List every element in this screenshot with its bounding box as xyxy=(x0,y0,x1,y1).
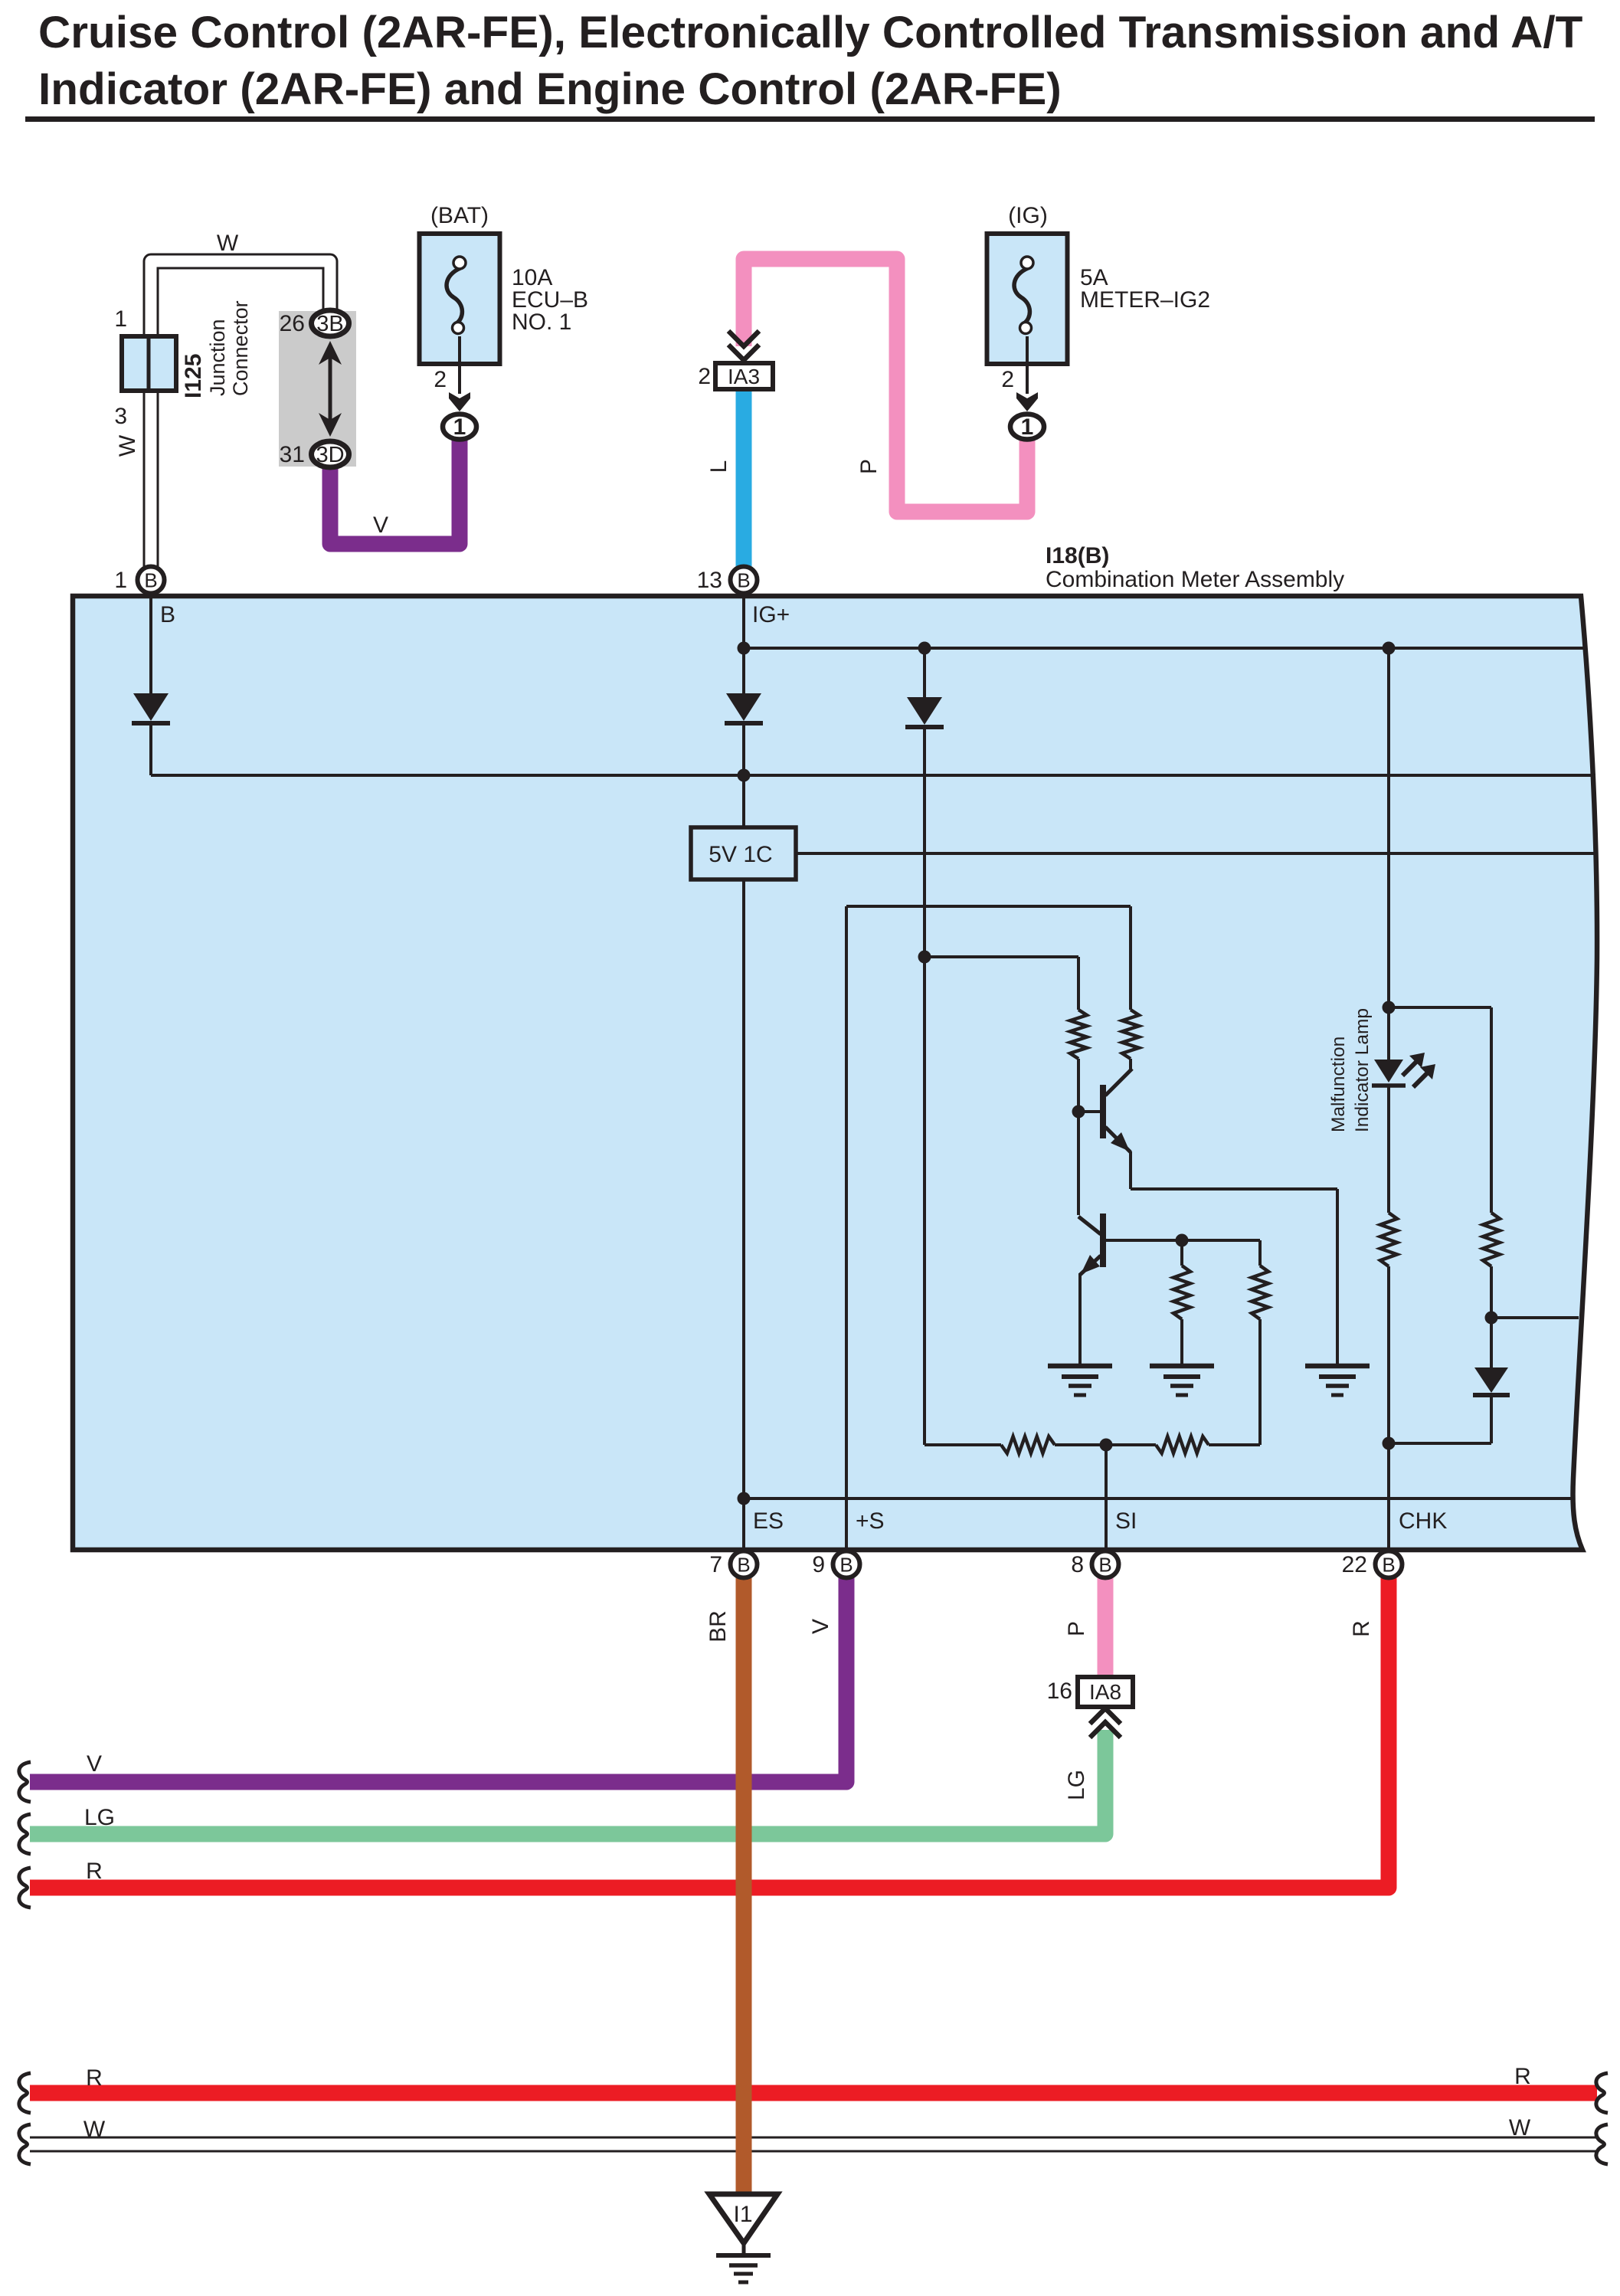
svg-text:IA3: IA3 xyxy=(728,365,760,388)
svg-text:Cruise Control (2AR-FE), Elect: Cruise Control (2AR-FE), Electronically … xyxy=(38,8,1583,57)
svg-text:(BAT): (BAT) xyxy=(430,203,489,228)
svg-text:METER–IG2: METER–IG2 xyxy=(1080,287,1210,313)
svg-text:V: V xyxy=(87,1751,102,1777)
svg-text:P: P xyxy=(1064,1621,1089,1636)
svg-text:W: W xyxy=(83,2117,106,2142)
svg-text:V: V xyxy=(808,1619,833,1634)
svg-text:B: B xyxy=(1098,1554,1111,1577)
svg-text:I125: I125 xyxy=(181,354,206,398)
svg-text:7: 7 xyxy=(709,1552,722,1577)
svg-text:R: R xyxy=(1349,1620,1374,1637)
svg-text:Junction: Junction xyxy=(206,319,229,396)
svg-text:ES: ES xyxy=(753,1508,784,1534)
svg-text:2: 2 xyxy=(434,367,447,392)
svg-text:LG: LG xyxy=(84,1805,115,1830)
svg-text:+S: +S xyxy=(856,1508,885,1534)
svg-text:W: W xyxy=(1509,2115,1531,2140)
svg-text:Connector: Connector xyxy=(229,300,252,396)
svg-text:LG: LG xyxy=(1064,1770,1089,1800)
svg-text:R: R xyxy=(1514,2064,1531,2089)
svg-text:1: 1 xyxy=(453,414,466,440)
svg-text:CHK: CHK xyxy=(1399,1508,1447,1534)
svg-text:W: W xyxy=(217,231,239,256)
svg-text:(IG): (IG) xyxy=(1008,203,1048,228)
svg-text:1: 1 xyxy=(114,306,127,332)
svg-text:Combination Meter Assembly: Combination Meter Assembly xyxy=(1046,567,1344,592)
svg-text:Indicator (2AR-FE) and Engine: Indicator (2AR-FE) and Engine Control (2… xyxy=(38,64,1062,114)
svg-text:3B: 3B xyxy=(316,312,343,336)
svg-text:W: W xyxy=(115,434,140,457)
svg-text:Indicator Lamp: Indicator Lamp xyxy=(1352,1008,1373,1132)
svg-text:NO. 1: NO. 1 xyxy=(512,310,571,335)
svg-text:I1: I1 xyxy=(733,2202,752,2227)
svg-text:R: R xyxy=(86,1859,103,1884)
svg-text:2: 2 xyxy=(698,364,711,389)
svg-text:BR: BR xyxy=(705,1610,731,1643)
svg-text:8: 8 xyxy=(1071,1552,1084,1577)
svg-text:B: B xyxy=(737,1554,750,1577)
svg-text:2: 2 xyxy=(1001,367,1014,392)
svg-text:P: P xyxy=(856,459,882,474)
svg-text:22: 22 xyxy=(1342,1552,1367,1577)
svg-text:B: B xyxy=(160,602,175,627)
svg-text:I18(B): I18(B) xyxy=(1046,543,1109,568)
svg-text:1: 1 xyxy=(114,568,127,593)
svg-text:SI: SI xyxy=(1115,1508,1137,1534)
svg-text:IA8: IA8 xyxy=(1089,1680,1121,1704)
svg-text:B: B xyxy=(1382,1554,1395,1577)
svg-text:Malfunction: Malfunction xyxy=(1328,1037,1349,1132)
svg-text:IG+: IG+ xyxy=(752,602,790,627)
svg-text:B: B xyxy=(839,1554,853,1577)
svg-text:3: 3 xyxy=(114,404,127,429)
svg-text:3D: 3D xyxy=(316,443,344,467)
svg-text:9: 9 xyxy=(812,1552,825,1577)
svg-text:26: 26 xyxy=(280,311,305,336)
svg-text:13: 13 xyxy=(697,568,722,593)
svg-text:B: B xyxy=(737,569,750,592)
svg-text:V: V xyxy=(373,513,388,538)
svg-text:31: 31 xyxy=(280,442,305,467)
svg-text:1: 1 xyxy=(1021,414,1034,440)
svg-text:R: R xyxy=(86,2065,103,2091)
svg-text:16: 16 xyxy=(1047,1679,1072,1704)
svg-text:L: L xyxy=(706,460,731,473)
svg-text:5V 1C: 5V 1C xyxy=(709,842,772,867)
svg-text:B: B xyxy=(144,569,157,592)
